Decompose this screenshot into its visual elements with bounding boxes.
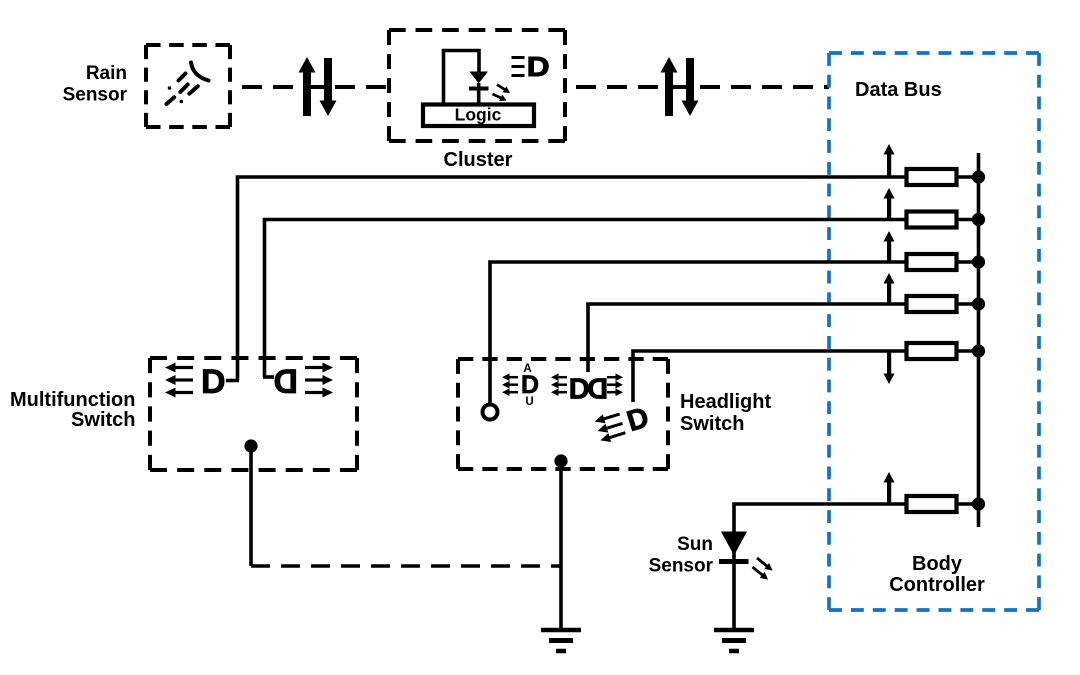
wire W1 stub to left indicator — [226, 379, 239, 383]
junction dot multifunction — [244, 439, 257, 452]
svg-text:D: D — [527, 52, 550, 83]
bus arrow up row4 — [884, 273, 895, 304]
arrow up (rain link) — [299, 57, 316, 116]
arrow down (rain link) — [320, 58, 337, 116]
junction dot row1 — [972, 170, 985, 183]
resistor R5 — [907, 343, 957, 359]
cluster wire loop — [444, 51, 480, 105]
svg-text:D: D — [587, 374, 608, 406]
rain sensor icon — [167, 63, 209, 105]
bus arrow up row6 — [884, 472, 895, 504]
right turn indicator icon — [273, 363, 298, 401]
svg-text:Switch: Switch — [680, 413, 744, 435]
ground (sun sensor) — [714, 630, 754, 651]
svg-text:Headlight: Headlight — [680, 391, 771, 413]
svg-text:Logic: Logic — [455, 105, 502, 125]
resistor R6 — [907, 496, 957, 512]
AUTO headlight icon — [502, 373, 518, 381]
wire W1 — [238, 177, 979, 381]
logic box — [423, 105, 534, 127]
wire: rain sensor to cluster (dashed) — [231, 85, 389, 89]
low beam icon (rotated) — [593, 402, 652, 448]
svg-text:Data Bus: Data Bus — [855, 79, 942, 101]
LED light arrows — [495, 81, 512, 95]
bus arrow down row5 — [884, 351, 895, 384]
LED D1 (cluster indicator) — [470, 72, 489, 84]
svg-text:Sensor: Sensor — [63, 85, 128, 106]
svg-text:A: A — [523, 363, 531, 375]
svg-text:Body: Body — [912, 553, 963, 575]
arrow down (cluster link) — [682, 58, 699, 116]
parking lights icon — [551, 373, 567, 381]
wire W4 — [588, 304, 979, 372]
junction dot row3 — [972, 255, 985, 268]
bus arrow up row1 — [884, 144, 895, 177]
junction dot headlight — [554, 454, 567, 467]
rain sensor box — [146, 45, 230, 127]
open terminal circle — [483, 405, 498, 420]
wire: cluster to data bus (dashed) — [565, 85, 829, 89]
svg-text:D: D — [201, 363, 226, 401]
multifunction switch box — [150, 358, 357, 470]
wire from headlight dot to ground — [559, 461, 563, 630]
svg-text:Cluster: Cluster — [444, 149, 513, 171]
resistor R2 — [907, 212, 957, 228]
svg-text:Rain: Rain — [86, 63, 127, 84]
svg-text:D: D — [623, 402, 652, 439]
sun sensor photodiode — [721, 532, 747, 556]
wire W6 (sun sensor) — [734, 504, 979, 630]
dashed wire to headlight ground wire — [251, 564, 560, 568]
arrow up (cluster link) — [661, 57, 678, 116]
wire from multifunction dot down — [249, 446, 253, 566]
bus arrow up row2 — [884, 188, 895, 220]
junction dot row5 — [972, 344, 985, 357]
junction dot row4 — [972, 297, 985, 310]
svg-text:D: D — [569, 374, 590, 406]
svg-text:Controller: Controller — [889, 574, 985, 596]
svg-text:Sun: Sun — [677, 534, 713, 555]
ground (headlight switch) — [541, 630, 581, 651]
resistor R1 — [907, 169, 957, 185]
data bus box (blue dashed) — [829, 53, 1039, 610]
cluster box — [389, 30, 565, 141]
bus arrow up row3 — [884, 231, 895, 262]
wire W2 — [265, 220, 979, 378]
resistor R4 — [907, 296, 957, 312]
svg-text:Multifunction: Multifunction — [10, 389, 136, 411]
headlight switch box — [458, 359, 668, 469]
left turn indicator icon — [165, 363, 193, 373]
wire W3 — [490, 262, 979, 405]
junction dot row2 — [972, 213, 985, 226]
bus line — [977, 153, 981, 527]
resistor R3 — [907, 254, 957, 270]
wire W5 — [633, 351, 979, 402]
svg-text:D: D — [273, 363, 298, 401]
svg-text:D: D — [521, 371, 539, 399]
junction dot row6 — [972, 497, 985, 510]
svg-text:Switch: Switch — [71, 409, 135, 431]
sun sensor light arrows — [755, 555, 775, 574]
high beam indicator icon — [512, 58, 525, 76]
wire W2 stub to right indicator — [263, 375, 274, 379]
svg-text:U: U — [525, 396, 533, 408]
svg-text:Sensor: Sensor — [649, 556, 714, 577]
